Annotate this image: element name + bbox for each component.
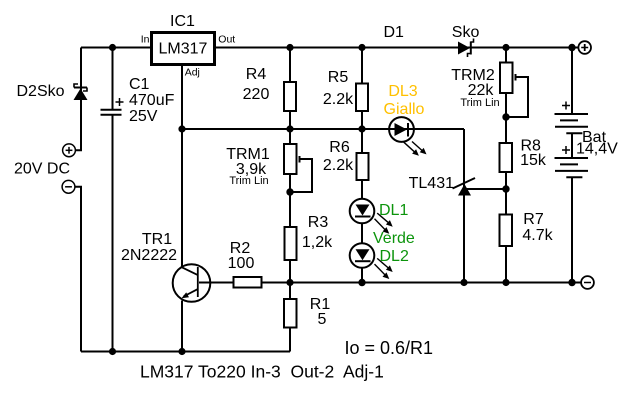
svg-text:2.2k: 2.2k <box>323 91 354 108</box>
wire TRM1 column <box>289 129 291 144</box>
svg-text:100: 100 <box>228 255 255 272</box>
svg-text:Sko: Sko <box>452 24 480 41</box>
trimmer TRM1 <box>284 144 300 174</box>
wire C1 column top <box>112 48 114 110</box>
resistor R4 <box>284 82 296 111</box>
svg-text:DL1: DL1 <box>379 202 408 219</box>
svg-text:In: In <box>141 34 150 46</box>
diode D1 Schottky <box>458 39 474 58</box>
wire battery column top <box>571 48 573 115</box>
wire mid horizontal Adj net <box>182 128 464 130</box>
wire DL3 out to TL431 column <box>463 129 465 283</box>
svg-text:Giallo: Giallo <box>384 101 425 118</box>
DL1 light arrows <box>375 213 393 234</box>
svg-text:Io = 0.6/R1: Io = 0.6/R1 <box>345 338 434 358</box>
wire R5 top <box>361 48 363 84</box>
wire R5 bottom <box>361 111 363 129</box>
wire R7 bottom <box>505 246 507 283</box>
svg-text:Trim Lin: Trim Lin <box>229 175 268 187</box>
LED DL2 <box>350 243 375 268</box>
wire TR1 emitter down <box>181 301 183 352</box>
wire base to R2 <box>199 282 234 284</box>
wire TRM1 wiper <box>290 159 312 192</box>
wire DL1 to DL2 <box>361 223 363 244</box>
svg-text:2.2k: 2.2k <box>323 157 354 174</box>
battery polarity plus top <box>562 102 570 110</box>
wire DL2 to rail <box>361 268 363 283</box>
wire TL431 ref to divider <box>466 188 506 190</box>
output terminal plus <box>578 41 591 54</box>
svg-text:LM317 To220 In-3 Out-2 Adj-1: LM317 To220 In-3 Out-2 Adj-1 <box>140 361 384 381</box>
svg-text:Trim Lin: Trim Lin <box>460 97 499 109</box>
resistor R1 <box>284 299 297 328</box>
DL2 light arrows <box>375 258 393 279</box>
svg-text:R5: R5 <box>328 69 349 86</box>
svg-text:2N2222: 2N2222 <box>121 247 177 264</box>
svg-text:R7: R7 <box>523 211 544 228</box>
svg-text:4.7k: 4.7k <box>522 227 553 244</box>
svg-text:220: 220 <box>243 86 270 103</box>
wire R6 column <box>361 129 363 153</box>
wire left input positive drop through D2 <box>75 48 81 151</box>
svg-text:20V DC: 20V DC <box>14 161 70 178</box>
svg-text:Out: Out <box>218 34 235 46</box>
svg-text:1,2k: 1,2k <box>302 234 333 251</box>
capacitor C1 <box>101 110 122 115</box>
wire R6 to DL1 <box>361 180 363 199</box>
wire TRM2 top <box>505 48 507 63</box>
diode D2 Schottky <box>74 84 88 100</box>
svg-text:Adj: Adj <box>185 66 200 78</box>
svg-text:Verde: Verde <box>373 230 415 247</box>
LED DL1 <box>350 199 375 224</box>
wire battery bottom <box>571 177 573 282</box>
shunt reference TL431 <box>453 178 476 196</box>
resistor R3 <box>285 227 297 260</box>
C1 polarity plus <box>116 98 124 106</box>
svg-text:470uF: 470uF <box>129 92 175 109</box>
svg-text:R4: R4 <box>246 66 267 83</box>
svg-text:D2Sko: D2Sko <box>17 83 65 100</box>
wire TRM2 wiper <box>506 77 528 117</box>
input terminal plus <box>63 144 76 157</box>
wire R4 top <box>289 48 291 83</box>
svg-text:14,4V: 14,4V <box>576 140 618 157</box>
battery polarity plus mid <box>562 146 570 154</box>
wire R3 bottom <box>289 260 291 283</box>
DL3 light arrows <box>404 142 427 156</box>
wire bottom left rail <box>81 351 290 353</box>
svg-text:25V: 25V <box>129 108 158 125</box>
transistor TR1 <box>173 264 211 302</box>
svg-text:15k: 15k <box>520 152 547 169</box>
wire R8 bottom to R7 top <box>505 172 507 215</box>
wire TRM1 to R3 <box>289 174 291 227</box>
resistor R8 <box>500 143 513 172</box>
wire R1 top <box>289 283 291 300</box>
svg-text:C1: C1 <box>129 76 150 93</box>
input terminal minus <box>62 180 75 193</box>
wire TRM2 bottom to junction <box>505 93 507 143</box>
wire R4 bottom <box>289 111 291 129</box>
LED DL3 <box>389 117 414 142</box>
svg-text:LM317: LM317 <box>159 41 208 58</box>
trimmer TRM2 <box>500 63 516 94</box>
wire IC1 Adj down to collector <box>181 62 183 267</box>
svg-text:5: 5 <box>318 311 327 328</box>
resistor R2 <box>234 277 262 288</box>
svg-text:TL431: TL431 <box>409 175 454 192</box>
svg-text:D1: D1 <box>383 24 404 41</box>
resistor R7 <box>500 215 513 247</box>
wire R2 to junction <box>262 282 291 284</box>
svg-text:R3: R3 <box>308 214 329 231</box>
wire R1 bottom to rail <box>289 328 291 352</box>
resistor R6 <box>357 153 369 180</box>
resistor R5 <box>356 84 368 112</box>
svg-text:R6: R6 <box>329 139 350 156</box>
wire C1 column bottom <box>112 115 114 352</box>
IC1 LM317 regulator box <box>152 33 215 65</box>
svg-text:DL3: DL3 <box>388 83 417 100</box>
svg-text:DL2: DL2 <box>380 248 409 265</box>
wire bottom right rail <box>290 282 581 284</box>
wire left input negative drop to bottom rail <box>75 187 81 352</box>
svg-text:TR1: TR1 <box>142 231 172 248</box>
output terminal minus <box>581 276 594 289</box>
battery Bat <box>555 114 589 177</box>
svg-text:IC1: IC1 <box>170 13 195 30</box>
wire top rail <box>81 47 578 49</box>
